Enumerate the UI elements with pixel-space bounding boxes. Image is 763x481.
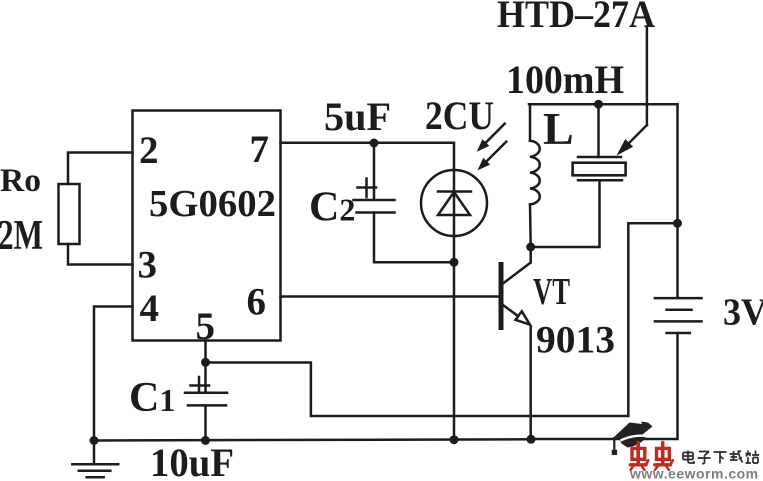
wire top rail to piezo top bbox=[597, 104, 600, 157]
transistor Q1 base bar bbox=[499, 265, 504, 328]
svg-text:2: 2 bbox=[139, 129, 159, 172]
light arrow 2 into photodiode bbox=[478, 142, 507, 171]
wire pin6 to transistor base bbox=[281, 295, 498, 298]
watermark graduation cap icon bbox=[612, 422, 653, 456]
photodiode 2CU triangle bbox=[438, 192, 470, 215]
capacitor C2 plates bbox=[354, 200, 395, 213]
svg-text:9013: 9013 bbox=[536, 319, 615, 362]
node pin5 junction dot bbox=[201, 358, 210, 367]
wire C2 top lead bbox=[373, 143, 376, 200]
svg-text:6: 6 bbox=[247, 281, 267, 324]
wire C2 bottom to photodiode cathode wire bbox=[374, 213, 454, 263]
wire pin2 to resistor top bbox=[68, 153, 133, 185]
piezo sounder HTD-27A crystal box bbox=[573, 163, 626, 176]
node C2-bottom junction dot bbox=[450, 258, 459, 267]
svg-text:5uF: 5uF bbox=[324, 94, 391, 139]
node collector junction dot bbox=[526, 243, 535, 252]
capacitor C2 plus sign bbox=[358, 179, 377, 198]
svg-text:5: 5 bbox=[196, 305, 216, 348]
svg-text:7: 7 bbox=[250, 128, 270, 171]
wire battery bottom to ground rail bbox=[531, 333, 678, 439]
svg-text:HTD–27A: HTD–27A bbox=[497, 0, 655, 36]
wire battery top lead bbox=[676, 104, 679, 298]
watermark 虫虫 characters (stylized red bugs) bbox=[630, 443, 672, 470]
watermark 电子下载站 text (drawn strokes) bbox=[683, 451, 759, 464]
wire emitter to ground rail bbox=[529, 327, 532, 440]
wire battery junction to pin5 net bbox=[206, 223, 678, 416]
ground rail bbox=[94, 439, 531, 440]
svg-text:3V: 3V bbox=[723, 292, 763, 334]
svg-text:C2: C2 bbox=[309, 185, 355, 231]
light arrow 1 into photodiode bbox=[477, 124, 505, 152]
ground symbol bbox=[72, 441, 118, 478]
wire pin7 to C2 and photodiode top bbox=[281, 143, 455, 170]
battery BT 3V plates bbox=[655, 298, 702, 333]
svg-text:5G0602: 5G0602 bbox=[149, 183, 276, 225]
wire C1 bottom to ground rail bbox=[204, 405, 207, 440]
transistor Q1 emitter with open arrowhead bbox=[503, 305, 530, 325]
svg-text:VT: VT bbox=[533, 271, 570, 313]
svg-text:100mH: 100mH bbox=[506, 57, 624, 102]
piezo sounder HTD-27A plates bbox=[578, 157, 622, 180]
svg-text:10uF: 10uF bbox=[150, 440, 234, 481]
svg-text:2M: 2M bbox=[0, 213, 43, 259]
inductor L bottom lead bbox=[529, 204, 532, 247]
inductor L coil bbox=[530, 141, 540, 205]
photodiode 2CU cathode bar bbox=[438, 190, 471, 193]
svg-text:www.eeworm.com: www.eeworm.com bbox=[629, 466, 759, 481]
node battery junction dot bbox=[673, 219, 682, 228]
svg-text:3: 3 bbox=[138, 244, 158, 287]
node C2-top junction dot bbox=[370, 139, 379, 148]
svg-text:4: 4 bbox=[140, 287, 160, 330]
node top-rail piezo junction dot bbox=[594, 100, 603, 109]
wire photodiode bottom to ground rail bbox=[453, 236, 456, 440]
top supply rail bbox=[529, 103, 678, 106]
capacitor C1 plates bbox=[185, 393, 227, 406]
svg-text:C1: C1 bbox=[129, 375, 175, 421]
wire resistor bottom to pin3 bbox=[68, 244, 133, 265]
inductor L top lead bbox=[529, 104, 532, 141]
wire pin5 down through C1 bbox=[204, 341, 207, 393]
node ground-rail dots bbox=[90, 436, 99, 445]
wire pin4 down to ground rail bbox=[94, 307, 133, 441]
wire collector junction to piezo bottom bbox=[531, 180, 600, 247]
svg-text:Ro: Ro bbox=[0, 163, 41, 199]
op-amp U1 5G0602 IC body bbox=[133, 111, 281, 341]
svg-text:L: L bbox=[543, 103, 574, 154]
svg-text:2CU: 2CU bbox=[425, 93, 494, 138]
wire photodiode center vertical bbox=[453, 170, 456, 236]
resistor Ro 2M bbox=[59, 184, 80, 244]
transistor Q1 collector bbox=[503, 247, 531, 284]
capacitor C1 plus sign bbox=[191, 377, 210, 391]
photodiode 2CU circle bbox=[421, 170, 487, 236]
leader line from HTD-27A label with arrowhead bbox=[617, 28, 647, 156]
